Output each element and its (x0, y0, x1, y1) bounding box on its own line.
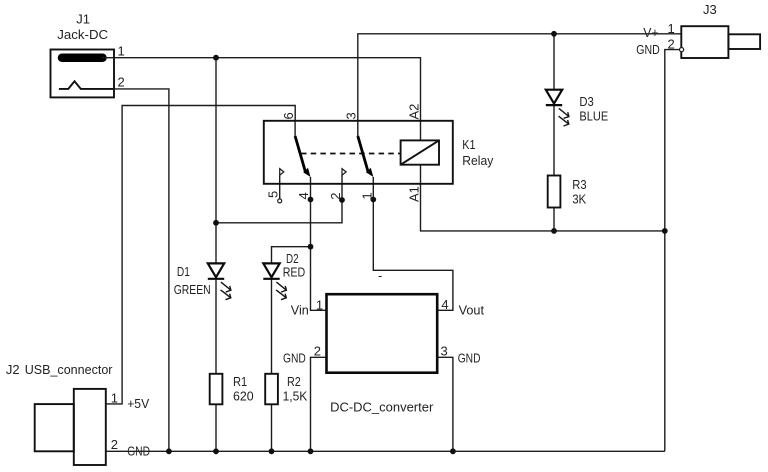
svg-text:4: 4 (296, 192, 311, 199)
svg-text:Relay: Relay (462, 153, 493, 168)
svg-text:R2: R2 (287, 374, 301, 389)
svg-text:2: 2 (668, 36, 675, 51)
svg-text:Vout: Vout (459, 303, 485, 318)
svg-text:V+: V+ (643, 25, 658, 40)
svg-text:1,5K: 1,5K (283, 389, 308, 404)
svg-text:1: 1 (668, 21, 675, 36)
svg-text:3: 3 (441, 344, 448, 359)
svg-text:6: 6 (281, 112, 296, 119)
svg-text:BLUE: BLUE (579, 108, 608, 123)
svg-text:1: 1 (316, 297, 323, 312)
svg-text:GND: GND (127, 444, 150, 459)
svg-text:GND: GND (458, 351, 481, 366)
svg-text:DC-DC_converter: DC-DC_converter (330, 400, 434, 415)
svg-text:2: 2 (328, 193, 343, 200)
svg-text:A2: A2 (406, 104, 421, 120)
svg-text:GND: GND (283, 351, 306, 366)
svg-text:2: 2 (118, 75, 125, 90)
svg-text:RED: RED (283, 264, 306, 279)
svg-text:1: 1 (111, 391, 118, 406)
svg-text:Jack-DC: Jack-DC (57, 27, 108, 42)
svg-text:J2: J2 (6, 362, 20, 377)
svg-text:A1: A1 (406, 186, 421, 202)
svg-text:4: 4 (441, 297, 448, 312)
svg-text:620: 620 (233, 389, 254, 404)
svg-text:Vin: Vin (291, 303, 309, 318)
svg-text:5: 5 (266, 191, 281, 198)
svg-text:-: - (378, 268, 382, 283)
svg-text:K1: K1 (462, 137, 475, 152)
svg-text:USB_connector: USB_connector (25, 362, 113, 377)
svg-text:R1: R1 (233, 374, 247, 389)
svg-text:1: 1 (359, 192, 374, 199)
svg-text:J3: J3 (703, 2, 717, 17)
svg-text:2: 2 (314, 344, 321, 359)
svg-text:3: 3 (344, 112, 359, 119)
svg-text:D1: D1 (177, 264, 190, 279)
svg-text:1: 1 (118, 43, 125, 58)
svg-text:R3: R3 (572, 177, 586, 192)
svg-text:D3: D3 (579, 94, 593, 109)
svg-text:3K: 3K (572, 191, 586, 206)
svg-text:GREEN: GREEN (174, 282, 211, 297)
svg-text:+5V: +5V (127, 396, 149, 411)
svg-text:J1: J1 (76, 12, 90, 27)
svg-text:2: 2 (111, 437, 118, 452)
svg-text:GND: GND (636, 42, 659, 57)
